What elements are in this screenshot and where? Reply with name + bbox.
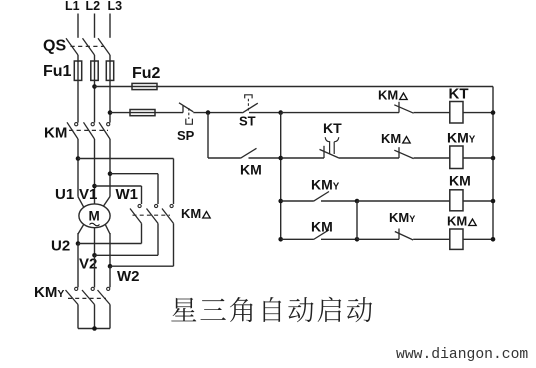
wire KM-delta c1 bottom bbox=[141, 223, 143, 243]
wire L1 drop to QS bbox=[77, 14, 79, 38]
node left rail rung3 bbox=[278, 199, 283, 204]
motor M circle bbox=[79, 204, 110, 228]
svg-text:KT: KT bbox=[449, 86, 469, 103]
node right rail rung3 bbox=[491, 199, 496, 204]
wire down to KM holding contact bbox=[207, 113, 209, 158]
KM main contact 1 fixed terminal bbox=[75, 123, 78, 126]
wire to KMy NC bbox=[357, 238, 399, 240]
svg-text:KMY: KMY bbox=[34, 284, 64, 301]
svg-text:KT: KT bbox=[323, 120, 342, 136]
wire KM NO to mid node bbox=[321, 238, 357, 240]
wire to KM coil bbox=[357, 200, 450, 202]
wire KM-delta c2 bottom bbox=[157, 223, 159, 255]
wire L3 drop to QS bbox=[109, 14, 111, 38]
fuse Fu2 lower bbox=[130, 110, 155, 116]
pushbutton SP (NC stop) bbox=[179, 103, 193, 124]
wire U2 to KMy bbox=[77, 244, 79, 288]
contact KM-delta NC (rung2) bbox=[394, 147, 413, 158]
KMy contact2 fixed terminal bbox=[91, 287, 94, 290]
contact KMy NC (rung4) bbox=[395, 229, 413, 241]
wire U1 lead into motor bbox=[78, 197, 84, 208]
node left rail rung2 bbox=[278, 156, 283, 161]
node mid rung4 bbox=[355, 237, 360, 242]
wire down to KM-delta contact1 bbox=[141, 186, 143, 204]
node right rail rung1 bbox=[491, 110, 496, 115]
wire KM2 to motor V1 bbox=[94, 139, 96, 205]
node left rail rung4 bbox=[278, 237, 283, 242]
fuse Fu1 phase1 bbox=[74, 61, 81, 80]
wire KT contact to KM-delta NC bbox=[339, 157, 399, 159]
svg-text:L3: L3 bbox=[108, 0, 123, 13]
svg-text:KM: KM bbox=[381, 131, 401, 146]
coil KM bbox=[450, 190, 463, 211]
coil KT bbox=[450, 102, 463, 124]
contact KT delayed NC bbox=[320, 137, 339, 158]
switch QS pole 1 blade bbox=[66, 38, 78, 55]
contact KM-delta NC (rung1) bbox=[394, 102, 413, 113]
contactor KM main blade 1 bbox=[67, 122, 78, 139]
contactor KM-delta blade 1 bbox=[130, 209, 142, 224]
contactor KM-delta blade 3 bbox=[162, 209, 174, 224]
node W2 bbox=[108, 264, 113, 269]
contactor KM main blade 3 bbox=[99, 122, 110, 139]
wire KMy c1 to star bus bbox=[77, 305, 79, 329]
wire U2 lead out of motor bbox=[78, 224, 84, 234]
KM-delta contact2 fixed terminal bbox=[155, 204, 158, 207]
contactor KM main blade 2 bbox=[84, 122, 95, 139]
wire through fuse Fu1a down to KM bbox=[77, 61, 79, 123]
svg-text:W1: W1 bbox=[116, 186, 139, 203]
wire rung4 to KM NO bbox=[281, 238, 314, 240]
wire W2 down bbox=[109, 233, 111, 266]
wire KM1 to motor U1 bbox=[77, 139, 79, 197]
svg-text:Fu2: Fu2 bbox=[132, 65, 161, 82]
wire KM3 to motor W1 bbox=[109, 139, 111, 197]
motor tilde bbox=[90, 223, 100, 226]
wire KMy c3 to star bus bbox=[109, 305, 111, 329]
wire control right rail bbox=[492, 87, 494, 240]
svg-text:KM: KM bbox=[311, 219, 333, 235]
svg-text:QS: QS bbox=[43, 38, 66, 55]
node U line to KM-delta bbox=[76, 156, 81, 161]
node V2 bbox=[92, 253, 97, 258]
wire to KMy coil bbox=[414, 157, 450, 159]
svg-text:KM: KM bbox=[44, 125, 67, 142]
wire control left rail bbox=[280, 113, 282, 240]
wire W tap to KM-delta contact2 bbox=[110, 173, 158, 175]
wire W1 lead into motor bbox=[103, 197, 110, 207]
wire down to KM-delta contact2 bbox=[157, 174, 159, 204]
wire to KM-delta coil bbox=[413, 238, 450, 240]
wire U2 down bbox=[77, 233, 79, 244]
wire rung3 to KMy NO bbox=[281, 200, 314, 202]
node W line to KM-delta bbox=[108, 171, 113, 176]
wire KM-delta c3 bottom bbox=[173, 223, 175, 266]
wire through fuse Fu1b down to KM bbox=[94, 61, 96, 123]
svg-text:KMY: KMY bbox=[389, 210, 415, 225]
contact KMy NO bbox=[314, 192, 330, 202]
node V line to KM-delta bbox=[92, 184, 97, 189]
wire L2 drop to QS bbox=[94, 14, 96, 38]
wire U tap to KM-delta contact3 bbox=[78, 158, 174, 160]
wire KM-delta coil to right rail bbox=[463, 238, 493, 240]
KMy contact3 fixed terminal bbox=[107, 287, 110, 290]
wire KMy c2 to star bus bbox=[94, 305, 96, 329]
wire V2 down bbox=[94, 228, 96, 256]
contactor KMy blade 2 bbox=[82, 290, 95, 305]
KMy contact1 fixed terminal bbox=[75, 287, 78, 290]
wire control top rail from L2 tap bbox=[95, 86, 494, 88]
contactor KM-delta blade 2 bbox=[147, 209, 159, 224]
svg-text:ST: ST bbox=[239, 114, 256, 129]
svg-text:L1: L1 bbox=[65, 0, 80, 13]
svg-text:U2: U2 bbox=[51, 238, 70, 255]
wire to KT coil bbox=[414, 112, 450, 114]
wire KT coil to right rail bbox=[463, 112, 493, 114]
fuse Fu1 phase3 bbox=[106, 61, 113, 80]
wire KM coil to right rail bbox=[463, 200, 493, 202]
node right rail rung2 bbox=[491, 156, 496, 161]
svg-text:Fu1: Fu1 bbox=[43, 63, 72, 80]
node star point bbox=[92, 326, 97, 331]
contact KM (NO holding) bbox=[241, 148, 257, 158]
svg-text:KM: KM bbox=[378, 88, 398, 103]
wire QS1 to Fu1a bbox=[77, 55, 79, 62]
node U2 bbox=[76, 241, 81, 246]
KM main contact 2 fixed terminal bbox=[91, 123, 94, 126]
wire KM-delta c3 to W2 bbox=[110, 265, 174, 267]
wire QS2 to Fu1b bbox=[94, 55, 96, 62]
wire W2 to KMy bbox=[109, 266, 111, 287]
KM main contact 3 fixed terminal bbox=[107, 123, 110, 126]
wire ST to left rail node bbox=[249, 112, 281, 114]
node L2 control tap bbox=[92, 84, 97, 89]
svg-text:L2: L2 bbox=[86, 0, 101, 13]
svg-text:V1: V1 bbox=[79, 186, 97, 203]
wire KMy coil to right rail bbox=[463, 157, 493, 159]
svg-text:KMY: KMY bbox=[447, 130, 476, 146]
node KM holding branch tap bbox=[206, 110, 211, 115]
wire SP to ST bbox=[193, 112, 242, 114]
KM-delta contact3 fixed terminal bbox=[170, 204, 173, 207]
KM gang link (dashed) bbox=[69, 129, 108, 131]
svg-text:KM: KM bbox=[447, 214, 467, 229]
wire KM-delta c1 to U2 bbox=[78, 243, 142, 245]
node right rail rung4 bbox=[491, 237, 496, 242]
svg-text:KM: KM bbox=[449, 173, 471, 189]
wire QS3 to Fu1c bbox=[109, 55, 111, 62]
QS gang link (dashed) bbox=[71, 45, 105, 47]
svg-text:U1: U1 bbox=[55, 186, 74, 203]
contact KM NO (rung4) bbox=[314, 230, 330, 240]
wire V2 to KMy bbox=[94, 255, 96, 287]
svg-text:SP: SP bbox=[177, 128, 195, 143]
wire KM holding to left rail bbox=[249, 157, 281, 159]
fuse Fu2 upper bbox=[132, 83, 157, 89]
wire L3 tap to SP bbox=[110, 112, 183, 114]
wire rung2 to KT contact bbox=[281, 157, 324, 159]
pushbutton ST (NO start) bbox=[242, 95, 257, 113]
wire rung1 to KM-delta NC bbox=[281, 112, 399, 114]
wire V tap to KM-delta contact1 bbox=[95, 185, 142, 187]
node L3 control tap bbox=[108, 110, 113, 115]
wire through fuse Fu1c down to KM bbox=[109, 61, 111, 123]
title 星三角自动启动 bbox=[171, 297, 372, 323]
switch QS pole 3 blade bbox=[98, 38, 110, 55]
svg-text:KM: KM bbox=[181, 206, 201, 221]
coil KMy bbox=[450, 146, 463, 169]
svg-text:W2: W2 bbox=[117, 268, 140, 285]
wire KM-delta c2 to V2 bbox=[95, 254, 159, 256]
svg-text:M: M bbox=[89, 209, 100, 224]
wire mid link rung3-rung4 bbox=[356, 201, 358, 239]
KM-delta contact1 fixed terminal bbox=[138, 204, 141, 207]
wire KMy NO to mid node bbox=[321, 200, 357, 202]
svg-text:KM: KM bbox=[240, 162, 262, 178]
svg-text:KMY: KMY bbox=[311, 177, 340, 193]
fuse Fu1 phase2 bbox=[91, 61, 98, 80]
coil KM-delta bbox=[450, 229, 463, 249]
wire to KM holding contact bbox=[208, 157, 241, 159]
KM-delta gang link (dashed) bbox=[133, 214, 171, 216]
contactor KMy blade 3 bbox=[98, 290, 111, 305]
contactor KMy blade 1 bbox=[66, 290, 79, 305]
wire W2 lead out of motor bbox=[105, 224, 110, 234]
node mid rung3 bbox=[355, 199, 360, 204]
wire down to KM-delta contact3 bbox=[173, 159, 175, 205]
node left rail top bbox=[278, 110, 283, 115]
switch QS pole 2 blade bbox=[83, 38, 95, 55]
star point bus bbox=[78, 328, 110, 330]
KMy gang link (dashed) bbox=[68, 297, 106, 299]
svg-text:www.diangon.com: www.diangon.com bbox=[396, 347, 528, 363]
